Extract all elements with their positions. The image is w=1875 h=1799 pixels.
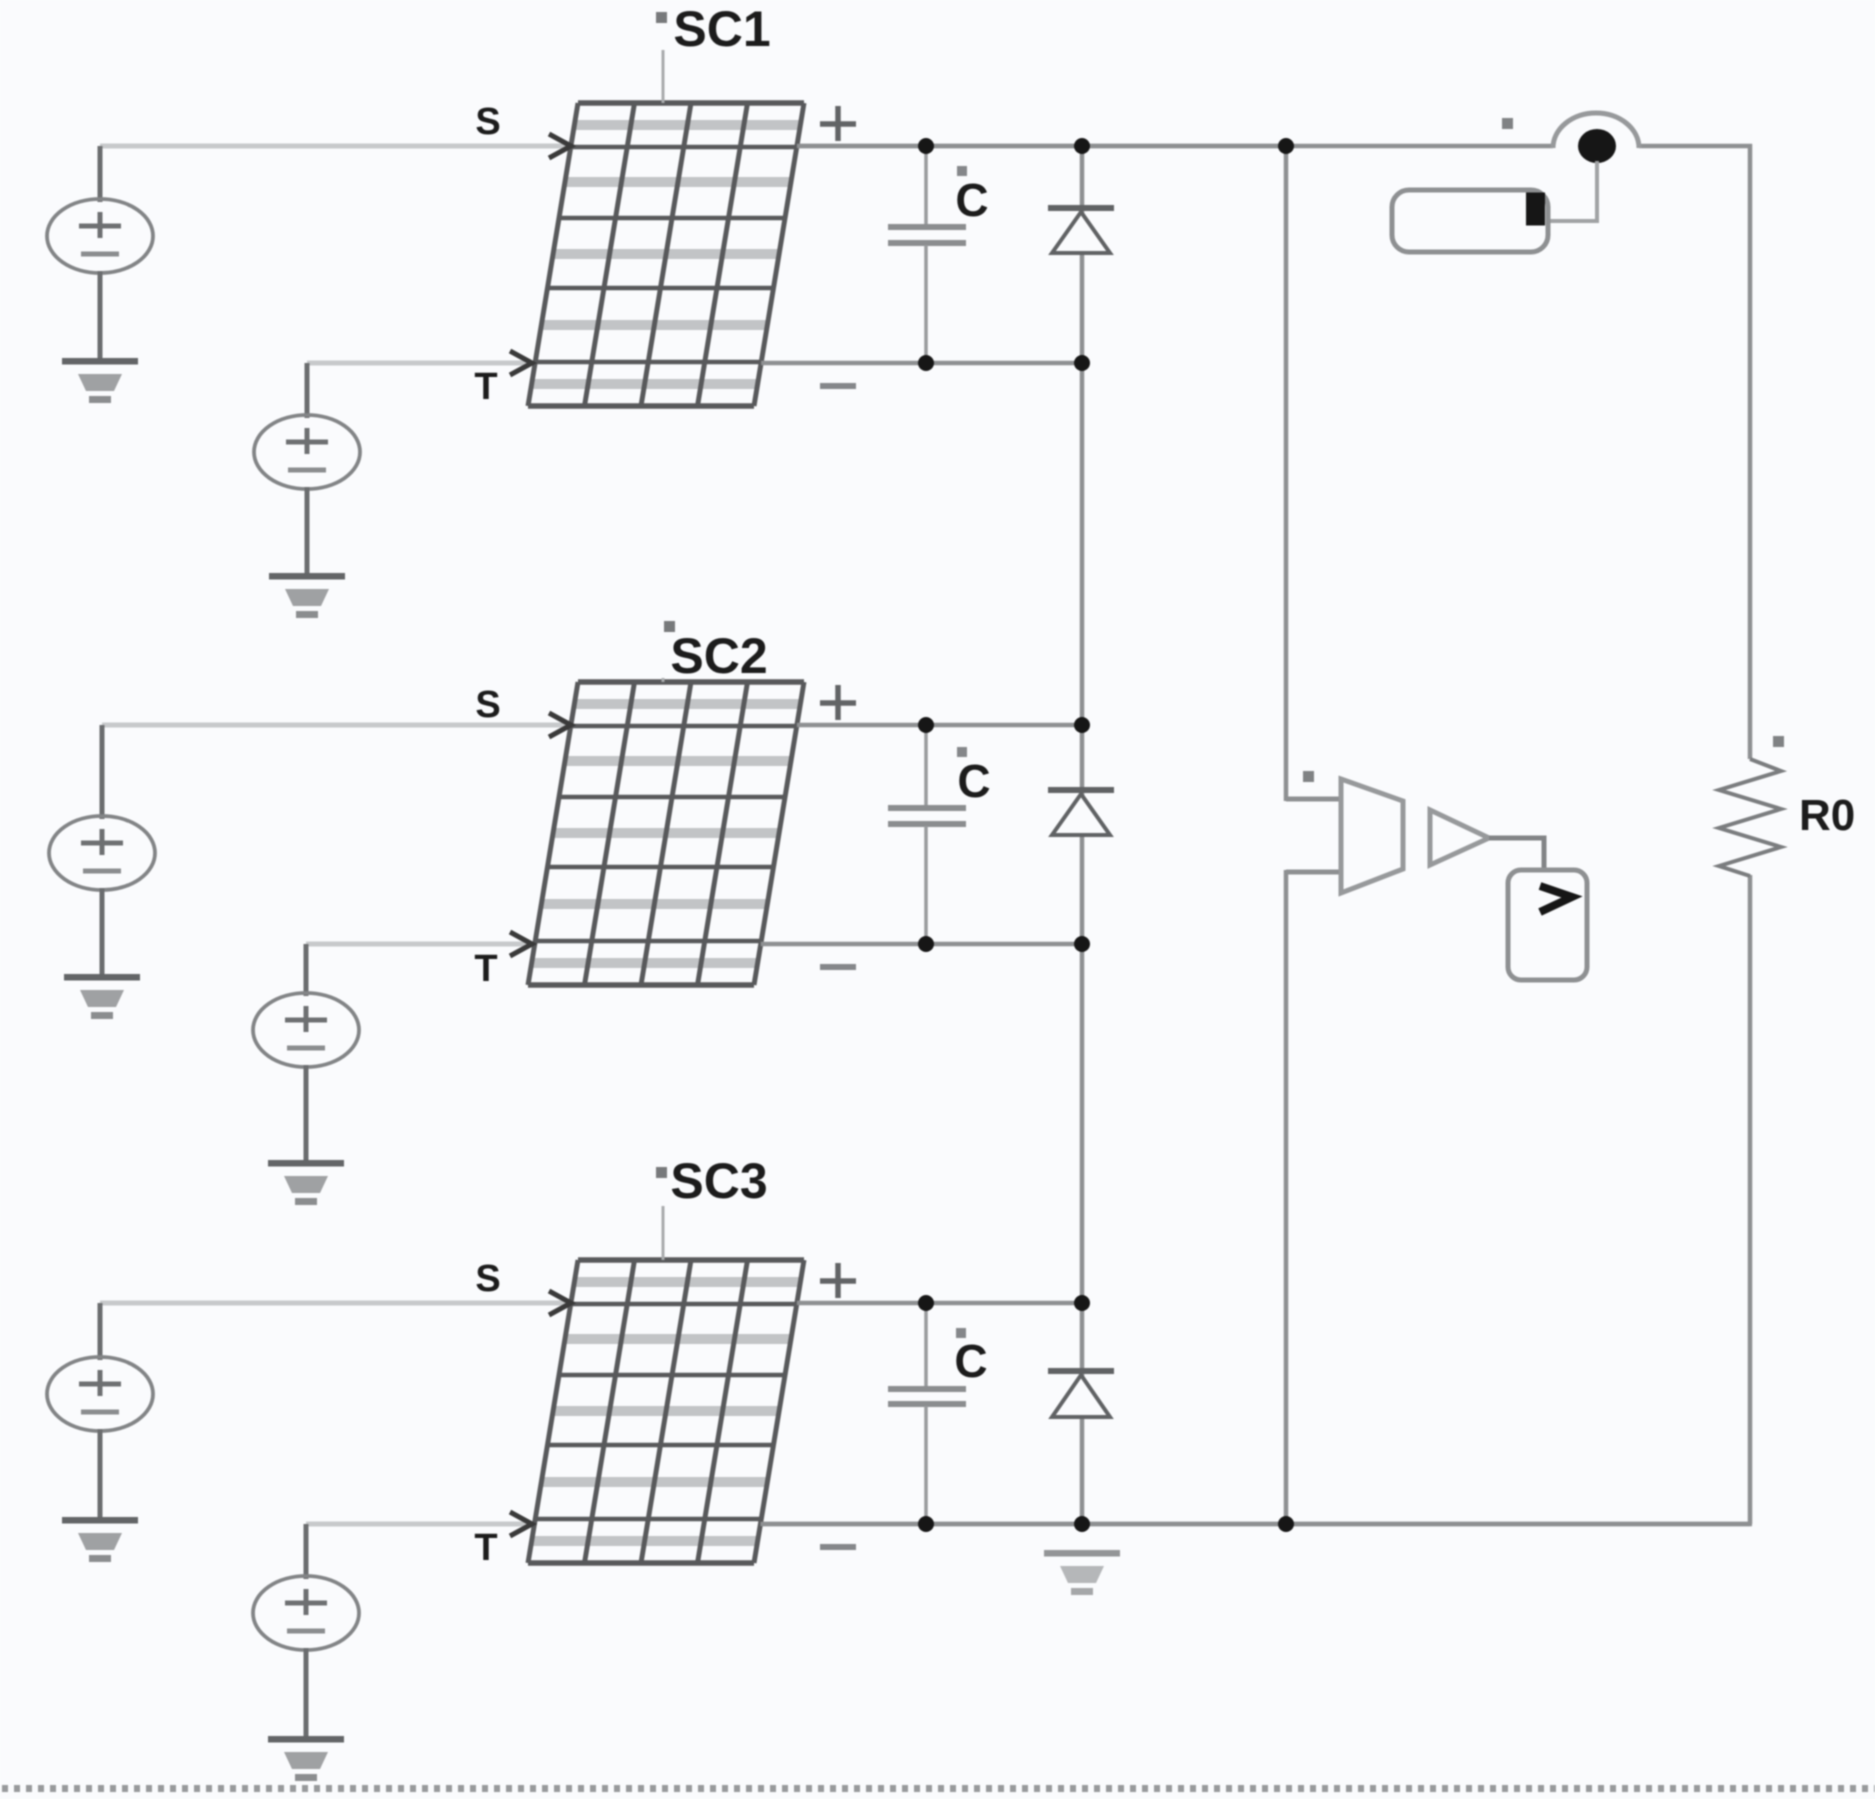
wire: voltage-sense bus x=1286 (top to V-measurement + input) — [1284, 146, 1289, 801]
leader line from label SC1 to panel — [662, 50, 665, 103]
junction node: sense bus top — [1278, 138, 1294, 154]
gain block (triangle) — [1430, 810, 1489, 865]
svg-text:SC1: SC1 — [673, 1, 770, 57]
bypass diode D2 — [1048, 790, 1114, 835]
label + terminal section 3 — [820, 1278, 856, 1284]
pin arrow S section 3 — [549, 1291, 571, 1315]
scope block — [1508, 870, 1587, 980]
svg-text:S: S — [475, 101, 500, 143]
wire: V1a to ground — [98, 271, 103, 360]
wire: T input wire section 1 — [307, 361, 527, 366]
wire: V3a to ground — [98, 1429, 103, 1519]
wire: - output section 3 — [760, 1522, 1750, 1527]
svg-text:C: C — [957, 755, 990, 807]
wire: V1b to ground — [305, 487, 310, 575]
current sensor hop arc — [1553, 113, 1639, 148]
voltage source V2a (S input) — [49, 725, 155, 890]
label + terminal section 1 — [820, 121, 856, 127]
wire: T input wire section 2 — [306, 942, 527, 947]
solar cell SC2 (panel icon) — [528, 682, 804, 985]
svg-text:C: C — [955, 174, 988, 226]
wire: top output bus (node +A to current sensor and right bus) — [797, 144, 1553, 149]
wire: + output section 2 — [797, 723, 1082, 728]
junction node: sense bus bottom — [1278, 1516, 1294, 1532]
pin arrow S section 2 — [549, 713, 571, 737]
voltage source V1b (T input) — [254, 363, 360, 489]
label - terminal section 1 — [820, 383, 856, 389]
wire: + output section 1 — [797, 144, 1286, 149]
label - terminal section 3 — [820, 1544, 856, 1550]
junction node dots section 2 — [918, 717, 934, 733]
svg-text:T: T — [474, 1527, 497, 1569]
junction node dots section 1 — [918, 138, 934, 154]
junction node dots section 3 — [918, 1295, 934, 1311]
wire: - output section 1 — [761, 361, 1082, 366]
label + terminal section 2 — [820, 700, 856, 706]
wire: S input wire section 3 — [100, 1301, 566, 1306]
capacitor C (section 1) — [888, 146, 966, 363]
leader line from label SC2 to panel — [662, 678, 665, 682]
capacitor C (section 2) — [888, 725, 966, 944]
tick above converter — [1502, 118, 1513, 129]
label - terminal section 2 — [820, 964, 856, 970]
tick near V-measurement — [1303, 771, 1314, 782]
tick above resistor — [1773, 736, 1784, 747]
svg-text:SC2: SC2 — [670, 628, 767, 684]
voltage source V2b (T input) — [253, 944, 359, 1067]
ground for V2a — [64, 974, 140, 1019]
pin arrow T section 2 — [510, 932, 532, 956]
ground for V2b — [268, 1160, 344, 1205]
ground for V3b — [268, 1736, 344, 1781]
wire: bypass-diode bus x=1082 — [1080, 146, 1085, 1524]
converter block (rounded) with black port — [1392, 190, 1548, 252]
solar cell SC3 (panel icon) — [528, 1260, 804, 1563]
svg-text:S: S — [475, 684, 500, 726]
svg-text:S: S — [475, 1258, 500, 1300]
wire: bottom return bus y=1524 — [759, 1522, 1752, 1527]
capacitor C (section 3) — [888, 1303, 966, 1524]
wire: V2b to ground — [304, 1065, 309, 1162]
wire: gain to scope — [1489, 838, 1544, 868]
leader line from label SC3 to panel — [662, 1206, 665, 1260]
dotted separator line at bottom — [2, 1785, 1875, 1792]
voltage source V1a (S input) — [47, 146, 153, 273]
wire: right load bus x=1750 — [1748, 144, 1753, 759]
pin arrow T section 1 — [510, 351, 532, 375]
voltage source V3a (S input) — [47, 1303, 153, 1431]
svg-text:SC3: SC3 — [670, 1153, 767, 1209]
current sensor node (black dot) — [1578, 129, 1616, 163]
wire: V2a to ground — [100, 888, 105, 976]
ground for V1a — [62, 358, 138, 403]
wire: sensor to converter block — [1548, 161, 1597, 221]
voltage source V3b (T input) — [253, 1524, 359, 1650]
wire: S input wire section 2 — [102, 723, 566, 728]
svg-text:T: T — [474, 948, 497, 990]
svg-text:C: C — [954, 1335, 987, 1387]
pin arrow T section 3 — [510, 1512, 532, 1536]
ground for V3a — [62, 1517, 138, 1562]
wire: - output section 2 — [761, 942, 1082, 947]
bypass diode D1 — [1048, 208, 1114, 253]
wire: voltage-sense bus x=1286 (V-measurement - input to bottom) — [1286, 870, 1341, 875]
wire: S input wire section 1 — [100, 144, 566, 149]
svg-text:R0: R0 — [1799, 791, 1855, 840]
ground for diode bus — [1044, 1550, 1120, 1595]
wire: T input wire section 3 — [306, 1522, 527, 1527]
ground for V1b — [269, 573, 345, 618]
wire: V3b to ground — [304, 1648, 309, 1738]
resistor R0 (zigzag) — [1719, 759, 1781, 876]
wire: + output section 3 — [797, 1301, 1082, 1306]
solar cell SC1 (panel icon) — [528, 103, 804, 406]
pin arrow S section 1 — [549, 134, 571, 158]
voltage measurement block (mux trapezoid) — [1341, 779, 1403, 893]
bypass diode D3 — [1048, 1371, 1114, 1417]
svg-text:T: T — [474, 366, 497, 408]
